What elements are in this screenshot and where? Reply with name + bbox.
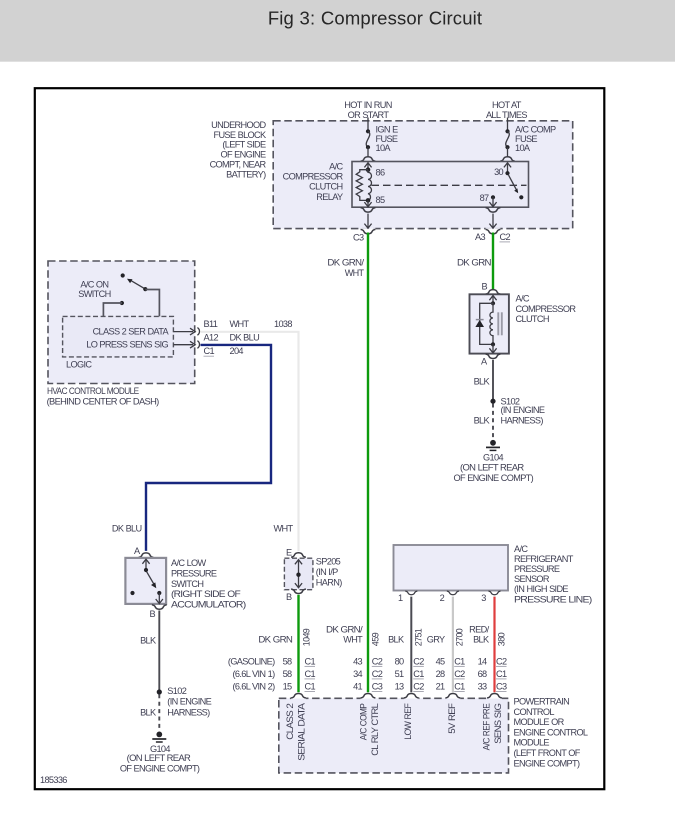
wire BLK dashed (S102 to G104) [492,404,494,440]
svg-text:COMPRESSOR: COMPRESSOR [516,304,577,314]
A/C on switch contact node (top) [121,273,125,277]
svg-text:2751: 2751 [414,628,424,646]
svg-text:DK BLU: DK BLU [112,523,142,533]
svg-text:C2: C2 [413,656,424,666]
svg-text:A/C REF PRE: A/C REF PRE [482,703,492,750]
svg-text:LO PRESS SENS SIG: LO PRESS SENS SIG [86,340,168,350]
svg-text:SERIAL DATA: SERIAL DATA [297,702,307,761]
wire DK GRN 1049 (SP205 to PCM) [297,595,299,693]
PCM pin label A/C COMP CL RLY CTRL (rotated) [359,703,381,756]
svg-text:BLK: BLK [474,376,491,386]
connector cup into clutch pin B [486,290,501,294]
svg-text:A/C ON: A/C ON [80,279,108,289]
svg-text:C2: C2 [500,232,511,242]
svg-text:DK BLU: DK BLU [230,333,260,343]
output arrow B11 [174,328,196,335]
powertrain control module (dashed enclosure) [279,698,509,773]
svg-text:A/C: A/C [514,544,528,554]
svg-text:BLK: BLK [473,635,490,645]
svg-text:BLK: BLK [140,636,157,646]
svg-text:A/C: A/C [516,294,530,304]
svg-text:COMPT, NEAR: COMPT, NEAR [210,160,267,170]
svg-text:C1: C1 [413,669,424,679]
svg-text:B: B [286,592,292,602]
svg-text:CONTROL: CONTROL [514,707,555,717]
fuse label A/C COMP FUSE 10A [515,125,556,154]
svg-text:SENSOR: SENSOR [514,574,550,584]
connector cup below LP switch pin B [152,605,167,609]
dash gaps at fuse block bottom connectors [361,228,501,231]
wire GRY 2700 (sensor 2 to PCM) [452,597,454,693]
connector cup into relay pin 86 [361,157,376,161]
svg-text:FUSE BLOCK: FUSE BLOCK [213,130,267,140]
svg-text:13: 13 [395,681,404,691]
svg-text:10A: 10A [515,143,531,153]
connector label C1 (underlined) [204,346,215,356]
svg-text:34: 34 [353,669,362,679]
wire BLK 2751 (sensor 1 to PCM) [410,597,412,693]
splice label S102 [501,397,545,426]
LP switch label [171,558,246,609]
svg-text:C2: C2 [413,681,424,691]
SP205 label [316,556,342,587]
svg-text:ENGINE COMPT): ENGINE COMPT) [514,758,580,768]
relay switch blade 30-87a [509,175,524,199]
relay pin 87 exit arrow [489,197,496,206]
diode D (points up) [475,320,484,327]
ground G104 (left) [152,732,166,743]
connector cup below relay pin 85 [361,208,376,212]
svg-text:51: 51 [395,669,404,679]
pin table row (6.6L VIN 1) [233,669,507,679]
fuse F A/C COMP 10A [505,129,509,156]
PCM connector cup 5V REF [446,694,461,698]
svg-text:ACCUMULATOR): ACCUMULATOR) [171,599,246,609]
svg-text:CLASS 2: CLASS 2 [285,703,295,740]
svg-text:HOT IN RUN: HOT IN RUN [344,100,392,110]
svg-text:CLUTCH: CLUTCH [309,182,342,192]
svg-text:E: E [286,548,292,558]
svg-text:DK GRN/: DK GRN/ [327,257,364,267]
svg-text:DK GRN/: DK GRN/ [326,624,363,634]
svg-text:A3: A3 [475,232,485,242]
A/C low pressure switch (box) [125,558,166,604]
svg-text:HOT AT: HOT AT [492,100,522,110]
svg-text:2700: 2700 [455,628,465,646]
svg-text:14: 14 [478,656,487,666]
relay K A/C compressor clutch relay (box) [352,162,529,208]
wire 87 to fuse block edge [489,214,496,229]
sensor pin 3 cup [488,591,500,595]
svg-text:(LEFT SIDE: (LEFT SIDE [222,140,266,150]
svg-text:CL RLY CTRL: CL RLY CTRL [370,703,380,756]
svg-text:1049: 1049 [302,628,312,646]
svg-text:87: 87 [480,193,489,203]
svg-text:WHT: WHT [345,268,365,278]
svg-text:BATTERY): BATTERY) [226,170,266,180]
clutch pin A node + exit arrow [489,342,496,353]
svg-text:1038: 1038 [274,319,292,329]
svg-text:C2: C2 [496,656,507,666]
wire label RED/BLK (bottom) [469,624,490,644]
svg-text:LOGIC: LOGIC [66,360,92,370]
svg-text:C1: C1 [496,669,507,679]
svg-text:459: 459 [371,632,381,646]
PCM pin label A/C REF PRE SENS SIG (rotated) [482,703,504,750]
ground label G104 [120,744,200,774]
svg-text:DK GRN: DK GRN [258,635,292,645]
wire label DK GRN/WHT (bottom) [326,624,363,644]
PCM connector cup LOW REF [404,694,419,698]
svg-text:21: 21 [436,681,445,691]
PCM connector cup A/C COMP CL RLY CTRL [361,694,376,698]
splice block SP205 (dashed box) [284,558,313,590]
svg-text:WHT: WHT [343,635,363,645]
wire 85 to fuse block edge [364,214,371,229]
svg-text:C3: C3 [372,681,383,691]
wire BLK (LP switch to S102) [158,611,160,691]
svg-text:(GASOLINE): (GASOLINE) [228,656,275,666]
relay pin 30 (male arrow + node) [504,163,511,176]
output arrow A12 [174,341,196,348]
A/C refrigerant pressure sensor (box) [394,545,509,591]
svg-text:SWITCH: SWITCH [171,579,203,589]
LP switch contact node (left) [130,591,134,595]
svg-text:OF ENGINE: OF ENGINE [221,150,267,160]
relay coil resistor (parallel zigzag) [356,170,368,201]
fuse label IGN E FUSE 10A [376,125,399,154]
logic block (dashed) [63,316,174,357]
svg-text:RED/: RED/ [469,624,489,634]
svg-text:68: 68 [478,669,487,679]
connector cup below SP205 [291,589,306,593]
sensor pin 2 cup [447,591,459,595]
clutch plates (parallel bars) [498,312,502,335]
wire label DK GRN/WHT (top) [327,257,364,278]
svg-text:(IN HIGH SIDE: (IN HIGH SIDE [514,584,568,594]
svg-text:G104: G104 [483,452,503,462]
connector cup below relay pin 87 [486,208,501,212]
PCM connector cup A/C REF PRE SENS SIG [487,694,502,698]
svg-text:PRESSURE LINE): PRESSURE LINE) [514,594,592,604]
PCM connector cup CLASS 2 SERIAL DATA [291,694,306,698]
clutch suppression diode branch [480,303,493,344]
svg-text:41: 41 [353,681,362,691]
svg-text:IGN E: IGN E [376,125,399,135]
PCM caption [514,697,588,769]
relay label [283,162,344,202]
svg-text:30: 30 [494,167,503,177]
svg-text:C1: C1 [454,681,465,691]
connector label C2 (underlined) [500,232,511,242]
svg-text:58: 58 [283,669,292,679]
svg-text:UNDERHOOD: UNDERHOOD [211,120,266,130]
svg-text:(ON LEFT REAR: (ON LEFT REAR [460,463,525,473]
svg-text:A/C LOW: A/C LOW [171,558,207,568]
svg-text:2: 2 [440,593,445,603]
svg-text:A/C COMP: A/C COMP [515,125,556,135]
node HOT IN RUN OR START [344,100,392,120]
svg-text:43: 43 [353,656,362,666]
relay pin 87 node [491,195,495,199]
svg-text:380: 380 [497,632,507,646]
svg-text:86: 86 [376,168,385,178]
svg-text:1: 1 [398,593,403,603]
svg-text:A/C: A/C [329,162,343,172]
splice S102 (engine side) [490,399,495,404]
clutch pin B male arrow + node [489,295,496,305]
svg-text:(LEFT FRONT OF: (LEFT FRONT OF [514,748,581,758]
pin table row (GASOLINE) [228,656,507,666]
svg-text:ALL TIMES: ALL TIMES [486,110,527,120]
svg-text:10A: 10A [376,143,392,153]
svg-text:WHT: WHT [274,523,294,533]
svg-text:MODULE: MODULE [514,738,550,748]
relay pin 86 (male arrow + node) [364,163,371,172]
svg-text:C2: C2 [372,669,383,679]
svg-text:C3: C3 [496,681,507,691]
svg-text:B11: B11 [204,319,218,329]
pin table row (6.6L VIN 2) [233,681,507,691]
svg-text:58: 58 [283,656,292,666]
svg-text:C1: C1 [204,346,215,356]
svg-text:185336: 185336 [40,775,67,785]
connector cup below clutch pin A [486,354,501,358]
svg-text:HARNESS): HARNESS) [501,416,544,426]
svg-text:WHT: WHT [230,319,250,329]
connector C3 cup [361,229,376,233]
svg-text:(6.6L VIN 2): (6.6L VIN 2) [233,681,276,691]
svg-text:(IN ENGINE: (IN ENGINE [501,405,545,415]
LP switch output node + exit arrow [156,591,163,604]
sensor pin 1 cup [405,591,417,595]
connector arc B11 [197,328,199,336]
node HOT AT ALL TIMES [486,100,527,120]
svg-text:A/C COMP: A/C COMP [359,703,369,740]
svg-text:C1: C1 [305,656,316,666]
wire DK BLU 204 (A12 to low pressure switch) [146,345,271,551]
svg-text:Fig 3: Compressor Circuit: Fig 3: Compressor Circuit [268,7,482,28]
wire DK GRN/WHT 459 (C3 to PCM) [367,233,369,693]
svg-text:33: 33 [478,681,487,691]
svg-text:(IN ENGINE: (IN ENGINE [167,697,211,707]
HVAC control module (dashed enclosure) [48,261,195,384]
svg-text:B: B [482,282,488,292]
PCM pin label CLASS 2 SERIAL DATA (rotated) [285,702,307,761]
svg-text:BLK: BLK [474,416,491,426]
svg-text:(ON LEFT REAR: (ON LEFT REAR [127,753,192,763]
wire BLK (clutch to S102) [492,360,494,400]
dash gaps at PCM top connectors [291,697,502,700]
LP switch pin A male arrow + node [142,559,149,572]
svg-text:DK GRN: DK GRN [457,257,491,267]
wire feed to IGN E fuse [367,118,369,132]
svg-text:HARNESS): HARNESS) [167,707,210,717]
svg-text:C1: C1 [305,669,316,679]
svg-text:CLUTCH: CLUTCH [516,314,549,324]
A/C on switch second contact + lead to logic [103,301,124,317]
A/C compressor clutch (box) [470,294,509,353]
svg-text:85: 85 [376,195,385,205]
svg-text:(BEHIND CENTER OF DASH): (BEHIND CENTER OF DASH) [47,397,160,407]
relay armature linkage (dashed) [372,184,527,186]
underhood fuse block label [210,120,267,180]
fuse F IGN E 10A [366,129,370,156]
underhood fuse block (dashed enclosure) [273,121,573,229]
sensor label [514,544,592,605]
relay pin 85 exit arrow [364,200,371,206]
svg-text:204: 204 [230,346,244,356]
wire RED/BLK 380 (sensor 3 to PCM) [493,597,495,693]
wire BLK dashed (S102 to G104 left) [158,694,160,731]
svg-text:28: 28 [436,669,445,679]
connector cup into LP switch pin A [139,553,154,557]
connector cup into relay pin 30 [500,157,515,161]
svg-text:PRESSURE: PRESSURE [514,564,560,574]
connector arc A12 [197,341,199,349]
relay coil (wavy winding) [368,170,372,201]
A/C on switch common node + lead to logic [143,287,159,316]
wire DK GRN (A3 to clutch) [492,233,494,290]
svg-text:A12: A12 [204,333,219,343]
svg-text:C3: C3 [353,233,364,243]
splice S102 (left) [157,689,162,694]
svg-text:15: 15 [283,681,292,691]
svg-text:(6.6L VIN 1): (6.6L VIN 1) [233,669,276,679]
svg-text:PRESSURE: PRESSURE [171,569,217,579]
svg-text:HARN): HARN) [316,577,342,587]
svg-text:COMPRESSOR: COMPRESSOR [283,172,344,182]
ground label G104 [454,452,534,483]
svg-text:GRY: GRY [427,635,445,645]
svg-text:POWERTRAIN: POWERTRAIN [514,697,570,707]
svg-text:RELAY: RELAY [316,192,343,202]
svg-text:C2: C2 [454,669,465,679]
svg-text:C2: C2 [372,656,383,666]
svg-text:5V REF: 5V REF [447,703,457,734]
SP205 internal arrows + node [295,560,302,588]
title banner [0,0,675,62]
A/C on switch label [78,279,110,299]
svg-text:OF ENGINE COMPT): OF ENGINE COMPT) [454,473,534,483]
svg-text:45: 45 [436,656,445,666]
svg-text:MODULE OR: MODULE OR [514,717,565,727]
svg-text:C1: C1 [454,656,465,666]
LP switch blade with arrow [147,572,157,589]
svg-text:CLASS 2 SER DATA: CLASS 2 SER DATA [93,327,170,337]
svg-text:OF ENGINE COMPT): OF ENGINE COMPT) [120,763,200,773]
svg-text:(RIGHT SIDE OF: (RIGHT SIDE OF [171,589,241,599]
diagram border frame [35,88,605,789]
svg-text:S102: S102 [167,686,186,696]
svg-text:SP205: SP205 [316,556,341,566]
connector A3 / C2 cup [486,229,501,233]
svg-text:(IN I/P: (IN I/P [316,567,338,577]
svg-text:3: 3 [481,593,486,603]
svg-text:HVAC CONTROL MODULE: HVAC CONTROL MODULE [47,386,139,396]
svg-text:B: B [150,609,156,619]
clutch label [516,294,577,325]
wire WHT 1038 (B11 to SP205) [201,332,299,552]
svg-text:BLK: BLK [140,707,157,717]
svg-text:80: 80 [395,656,404,666]
svg-text:ENGINE CONTROL: ENGINE CONTROL [514,727,588,737]
connector cup into SP205 [291,553,306,557]
svg-text:SENS SIG: SENS SIG [493,703,503,744]
ground G104 (right) [486,440,500,451]
svg-text:LOW REF: LOW REF [403,703,413,740]
svg-text:C1: C1 [305,681,316,691]
relay pin 85 node [366,198,371,203]
svg-text:SWITCH: SWITCH [78,289,110,299]
clutch coil winding [490,303,493,344]
svg-text:BLK: BLK [388,635,405,645]
svg-text:REFRIGERANT: REFRIGERANT [514,554,574,564]
wire feed to A/C COMP fuse [507,118,509,132]
module caption HVAC CONTROL MODULE [47,386,160,407]
A/C on switch blade with arrow [127,279,145,289]
splice label S102 [167,686,211,717]
